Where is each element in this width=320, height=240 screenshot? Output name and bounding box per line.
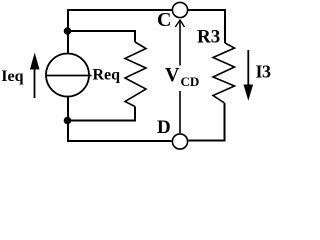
svg-text:D: D [157, 117, 171, 138]
V_CD arrow (open head, pointing up at C) [175, 20, 184, 133]
svg-text:V: V [165, 64, 180, 86]
resistor Req (zigzag) [125, 42, 146, 107]
svg-text:I3: I3 [256, 62, 272, 82]
svg-text:C: C [157, 9, 171, 31]
node C terminal (open circle) [172, 2, 187, 17]
wire: top rail right (node C to R3 corner) [188, 10, 225, 43]
wire: bottom rail right (node D to R3 bottom corner) [188, 103, 224, 141]
svg-text:Req: Req [93, 67, 121, 84]
current source Ieq: horizontal bar [45, 75, 92, 77]
svg-text:CD: CD [181, 74, 200, 89]
wire: Req top lead [68, 31, 135, 42]
junction dot top-left [64, 27, 72, 35]
I3 arrow (current direction, down) [244, 50, 254, 101]
Ieq arrow (current direction, up) [30, 53, 40, 99]
wire: top rail left (from left branch corner to node C) [68, 10, 172, 54]
current source Ieq: circle [46, 54, 89, 97]
wire: Req bottom lead [68, 107, 135, 121]
node D terminal (open circle) [172, 134, 187, 149]
label V_CD [165, 64, 199, 89]
resistor R3 (zigzag) [213, 43, 235, 103]
wire: left vertical lower + bottom rail left (to node D) [68, 97, 172, 142]
junction dot bottom-left [64, 117, 72, 125]
svg-text:Ieq: Ieq [1, 68, 23, 85]
svg-text:R3: R3 [197, 27, 220, 48]
